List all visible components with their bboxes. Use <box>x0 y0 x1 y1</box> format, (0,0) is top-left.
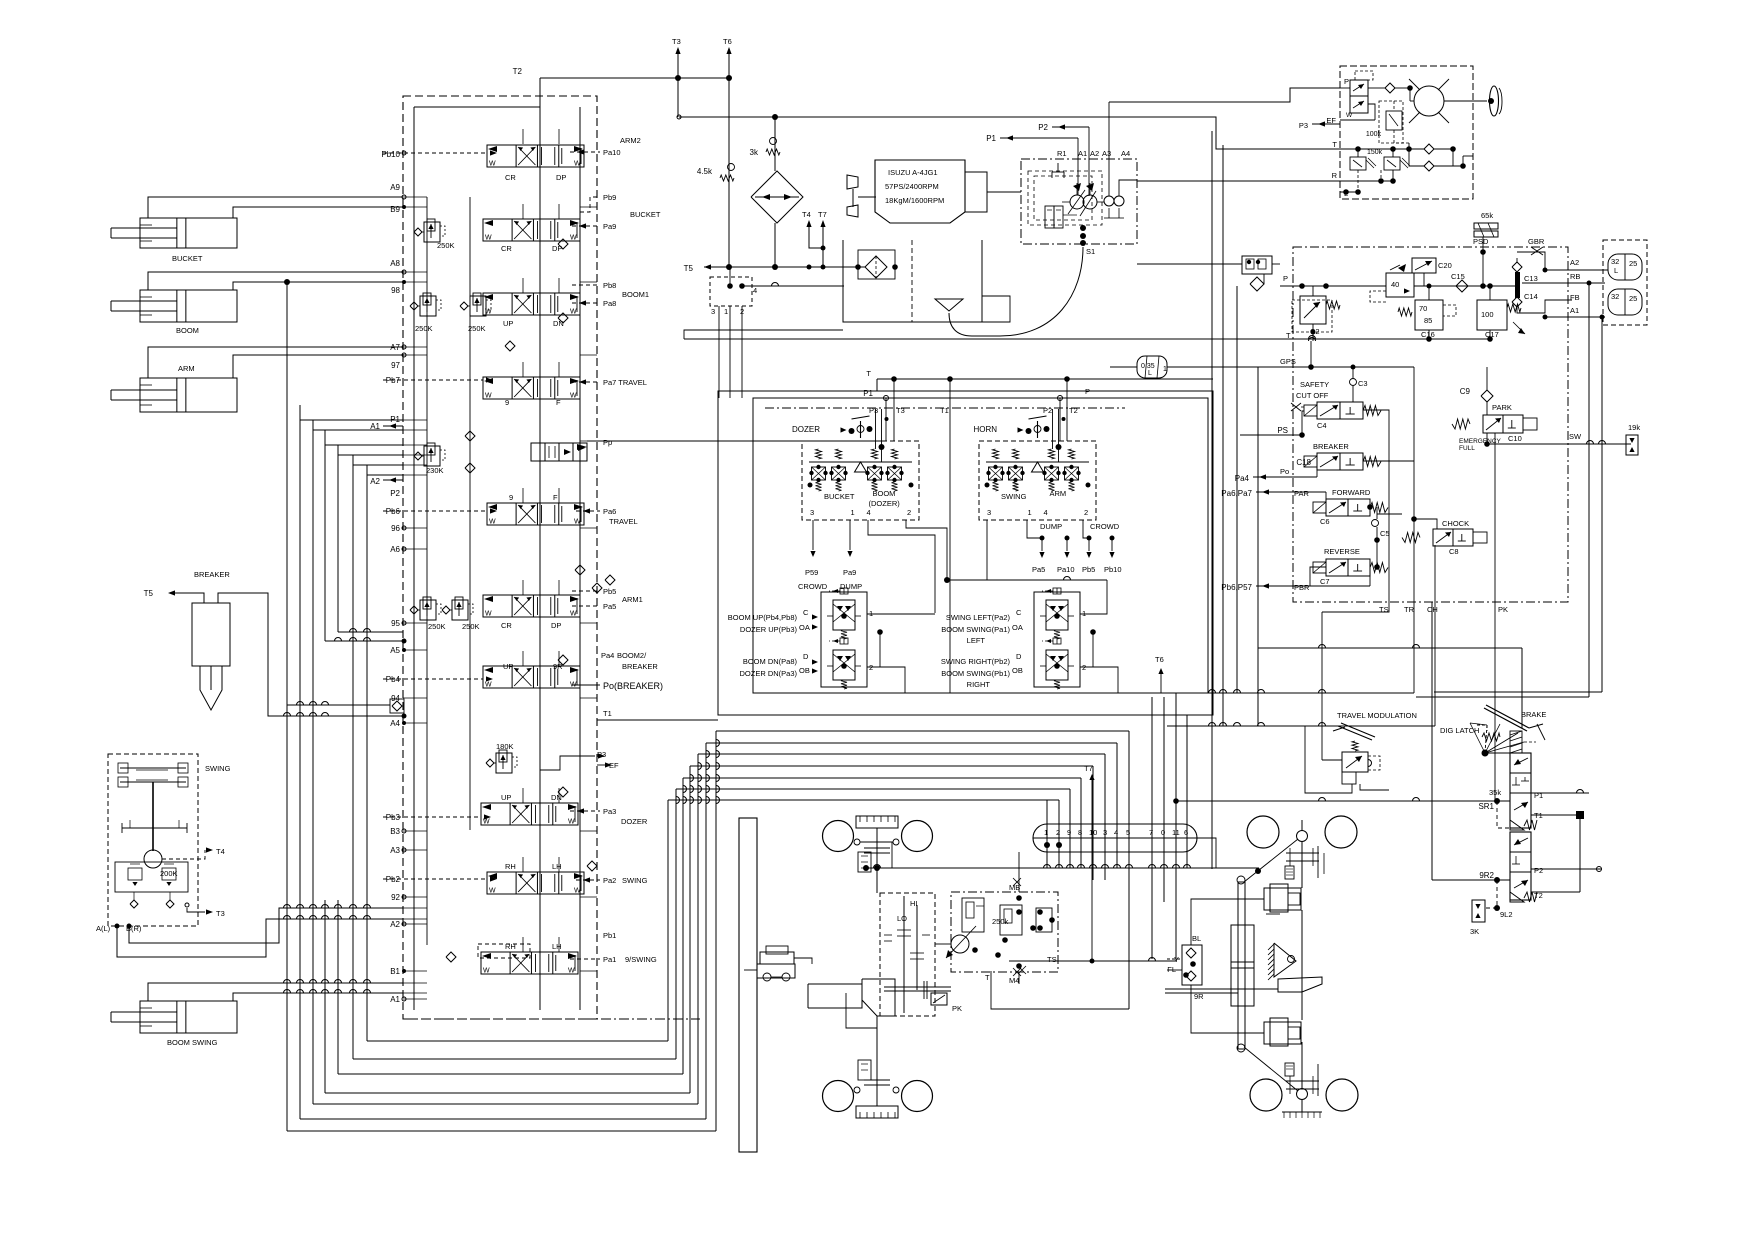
svg-text:25: 25 <box>1629 294 1637 303</box>
valve C17 100 <box>1477 300 1507 330</box>
svg-text:1: 1 <box>1163 366 1167 373</box>
svg-text:Pb4: Pb4 <box>386 675 401 684</box>
valve block internal rail right <box>579 107 581 1010</box>
wire arm A7 <box>148 347 403 378</box>
svg-text:DP: DP <box>556 173 566 182</box>
svg-text:OA: OA <box>1012 623 1023 632</box>
pump inner dashed boxes <box>1028 171 1102 225</box>
transfer pump circle <box>951 935 969 953</box>
svg-text:T: T <box>1332 140 1337 149</box>
svg-text:200K: 200K <box>160 869 178 878</box>
svg-text:65k: 65k <box>1481 211 1493 220</box>
svg-text:P3: P3 <box>1299 121 1308 130</box>
svg-text:0.35: 0.35 <box>1141 363 1155 370</box>
steering port P wire <box>1340 87 1350 89</box>
svg-text:96: 96 <box>391 524 400 533</box>
svg-text:85: 85 <box>1424 316 1432 325</box>
front steering fork <box>760 952 794 964</box>
svg-text:PK: PK <box>952 1004 962 1013</box>
node T6 junction <box>726 75 732 81</box>
valve section SWING (Pa2/Pb2) <box>487 872 584 894</box>
rear axle top wheels <box>1247 816 1279 848</box>
svg-text:250K: 250K <box>428 622 446 631</box>
svg-text:C7: C7 <box>1320 577 1330 586</box>
svg-text:Pa5: Pa5 <box>1032 565 1045 574</box>
svg-text:LO: LO <box>897 914 907 923</box>
svg-text:150k: 150k <box>1367 149 1383 156</box>
rear axle bottom gears <box>1286 1080 1319 1082</box>
svg-text:P3: P3 <box>869 406 878 415</box>
wire top return line <box>679 117 1340 149</box>
svg-text:Pb3: Pb3 <box>386 813 401 822</box>
rear steering cylinder <box>1238 882 1245 1049</box>
svg-text:9L2: 9L2 <box>1500 910 1513 919</box>
svg-text:95: 95 <box>391 619 400 628</box>
pilot manifold inner box <box>753 398 1208 693</box>
svg-text:BOOM1: BOOM1 <box>622 290 649 299</box>
svg-text:A2: A2 <box>390 920 400 929</box>
rear caliper upper <box>1264 888 1301 910</box>
svg-text:BUCKET: BUCKET <box>630 210 661 219</box>
svg-text:C: C <box>1016 608 1022 617</box>
wire boom A8 <box>148 272 403 290</box>
svg-text:18KgM/1600RPM: 18KgM/1600RPM <box>885 196 944 205</box>
rear axle top kingpin <box>1297 831 1308 842</box>
wire long return y337 <box>684 338 1490 340</box>
svg-text:SWING: SWING <box>1001 492 1027 501</box>
tank strainer <box>935 299 963 311</box>
svg-text:BOOM SWING(Pb1): BOOM SWING(Pb1) <box>941 669 1010 678</box>
svg-text:SR1: SR1 <box>1478 802 1494 811</box>
svg-text:C: C <box>803 608 809 617</box>
svg-text:DP: DP <box>552 244 562 253</box>
svg-text:9R: 9R <box>1194 992 1204 1001</box>
pump small drains <box>1108 208 1110 218</box>
bundle verticals ending at arm1 <box>324 430 326 641</box>
svg-text:BOOM: BOOM <box>176 326 199 335</box>
svg-text:B3: B3 <box>390 827 400 836</box>
svg-text:RH: RH <box>505 862 516 871</box>
svg-text:A1: A1 <box>1570 306 1579 315</box>
wire pump to steering P <box>1109 88 1340 102</box>
relief valve 250K boom a <box>420 296 436 316</box>
svg-text:W: W <box>485 682 492 689</box>
wire 35k SR1 <box>1176 800 1510 802</box>
svg-text:W: W <box>574 519 581 526</box>
svg-text:DUMP: DUMP <box>840 582 862 591</box>
brake linkage triangle <box>1482 750 1489 757</box>
steering port R wire <box>1340 180 1393 182</box>
svg-text:W: W <box>570 393 577 400</box>
wire bucket A9 <box>148 197 403 218</box>
svg-text:A4: A4 <box>390 719 400 728</box>
svg-text:P59: P59 <box>805 568 818 577</box>
pilot filter block <box>1242 256 1272 274</box>
svg-text:UP: UP <box>501 793 511 802</box>
svg-text:A3: A3 <box>1102 149 1111 158</box>
svg-text:97: 97 <box>391 361 400 370</box>
svg-text:C14: C14 <box>1524 292 1538 301</box>
svg-text:OB: OB <box>799 666 810 675</box>
svg-text:3: 3 <box>810 508 814 517</box>
svg-text:T4: T4 <box>802 210 811 219</box>
pump assembly box <box>1021 159 1137 244</box>
svg-text:P2: P2 <box>1043 406 1052 415</box>
svg-text:1: 1 <box>724 307 728 316</box>
brake valve 1 <box>1510 753 1531 828</box>
cylinder BOOM SWING <box>140 1001 237 1033</box>
check C13 C14 <box>1515 272 1520 298</box>
svg-text:PAR: PAR <box>1294 489 1309 498</box>
node T3 junction <box>675 75 681 81</box>
svg-text:T: T <box>985 973 990 982</box>
rear port block BL Y FL <box>1182 945 1202 985</box>
svg-text:C8: C8 <box>1449 547 1459 556</box>
valve block internal rail left <box>413 107 415 1010</box>
transfer control block 250k <box>951 892 1058 972</box>
svg-text:1: 1 <box>1082 609 1086 618</box>
gearbox output cone <box>862 979 895 1016</box>
wire pump A4 right <box>1119 180 1137 196</box>
svg-text:W: W <box>485 393 492 400</box>
filter diamond <box>751 171 803 223</box>
rear axle bottom wheels <box>1250 1079 1282 1111</box>
svg-text:Pb5: Pb5 <box>603 587 616 596</box>
valve section BOOM2/BREAKER (Pa4/Pb4) <box>483 666 580 688</box>
svg-text:B1: B1 <box>390 967 400 976</box>
pump drain R1 <box>1057 163 1059 172</box>
rear caliper lower <box>1264 1022 1301 1044</box>
wire boomswing A1 <box>148 983 403 1001</box>
pump main gear pumps <box>1070 195 1084 209</box>
svg-text:3: 3 <box>987 508 991 517</box>
valve C2 relief <box>1300 296 1326 324</box>
tank filter <box>858 250 895 279</box>
harness verticals right <box>1211 131 1213 869</box>
svg-text:1: 1 <box>869 609 873 618</box>
svg-text:3: 3 <box>711 307 715 316</box>
pump regulator <box>1045 206 1054 228</box>
svg-text:W: W <box>574 888 581 895</box>
wire gearbox loop <box>846 993 877 1028</box>
svg-text:A1: A1 <box>390 995 400 1004</box>
svg-text:OA: OA <box>799 623 810 632</box>
svg-text:TRAVEL MODULATION: TRAVEL MODULATION <box>1337 711 1417 720</box>
wire bundle to 94 box <box>287 704 390 706</box>
wire C6 to chock <box>1377 513 1402 515</box>
harness rows and verticals <box>716 730 1129 732</box>
svg-text:C18: C18 <box>1296 458 1311 467</box>
svg-text:BOOM: BOOM <box>873 489 896 498</box>
engine ISUZU block <box>875 160 965 223</box>
pilot group left port wires <box>812 520 814 550</box>
svg-text:CROWD: CROWD <box>798 582 828 591</box>
svg-text:A2: A2 <box>1570 258 1579 267</box>
pilot 4-port block <box>710 277 752 306</box>
wire Pp to pilot <box>597 440 886 442</box>
svg-text:Pa5: Pa5 <box>603 602 616 611</box>
svg-text:T: T <box>1286 331 1291 340</box>
svg-text:BOOM UP(Pb4,Pb8): BOOM UP(Pb4,Pb8) <box>728 613 798 622</box>
svg-text:2: 2 <box>1082 663 1086 672</box>
svg-text:Pb6: Pb6 <box>386 507 401 516</box>
svg-text:1: 1 <box>1044 828 1048 837</box>
node boom B8 junction <box>284 279 290 285</box>
wire right harness h1 <box>1167 692 1414 694</box>
svg-text:W: W <box>570 309 577 316</box>
svg-text:PK: PK <box>1498 605 1508 614</box>
svg-text:A3: A3 <box>390 846 400 855</box>
svg-text:W: W <box>570 611 577 618</box>
svg-text:T3: T3 <box>672 37 681 46</box>
svg-text:A2: A2 <box>1090 149 1099 158</box>
valve section DOZER (Pa3/Pb3) <box>481 803 578 825</box>
relief valve 250K arm b <box>452 600 468 620</box>
svg-text:RIGHT: RIGHT <box>967 680 991 689</box>
svg-text:UP: UP <box>503 319 513 328</box>
svg-text:SWING RIGHT(Pb2): SWING RIGHT(Pb2) <box>941 657 1011 666</box>
svg-text:R1: R1 <box>1057 149 1067 158</box>
rear axle top gears <box>1286 852 1319 854</box>
wire bump line y868 <box>866 867 1259 869</box>
steering unit box <box>1340 66 1473 199</box>
svg-text:9: 9 <box>509 493 513 502</box>
rear brake pack bottom <box>1285 1063 1294 1076</box>
travel modulation valve <box>1342 752 1368 772</box>
svg-text:A2: A2 <box>370 477 380 486</box>
svg-text:P2: P2 <box>1038 123 1048 132</box>
svg-text:BREAKER: BREAKER <box>194 570 230 579</box>
svg-text:LH: LH <box>552 942 562 951</box>
front axle shaft <box>876 828 878 893</box>
svg-text:S1: S1 <box>1086 247 1095 256</box>
svg-text:C3: C3 <box>1358 379 1368 388</box>
svg-text:100: 100 <box>1481 310 1494 319</box>
svg-text:W: W <box>483 968 490 975</box>
svg-text:W: W <box>489 519 496 526</box>
front axle bottom wheels <box>823 1081 854 1112</box>
svg-text:Pa7 TRAVEL: Pa7 TRAVEL <box>603 378 647 387</box>
svg-text:2: 2 <box>1056 828 1060 837</box>
wire pilot line y648 <box>1258 647 1522 649</box>
svg-text:250K: 250K <box>468 324 486 333</box>
svg-text:PS: PS <box>1277 426 1288 435</box>
svg-text:Pp: Pp <box>603 438 612 447</box>
svg-text:FULL: FULL <box>1459 445 1475 452</box>
svg-text:CUT OFF: CUT OFF <box>1296 391 1329 400</box>
svg-text:Pa4: Pa4 <box>601 651 614 660</box>
svg-text:A4: A4 <box>1121 149 1130 158</box>
valve block right stubs <box>580 206 597 208</box>
svg-text:Pa10: Pa10 <box>603 148 621 157</box>
svg-text:DOZER UP(Pb3): DOZER UP(Pb3) <box>740 625 798 634</box>
wire tank drain <box>684 330 843 339</box>
valve section ARM1 (Pa5/Pb5) <box>483 595 580 617</box>
drive brake valve PK <box>931 993 947 1005</box>
svg-text:Pb5: Pb5 <box>1082 565 1095 574</box>
steering orbitrol <box>1414 86 1444 116</box>
svg-text:P1: P1 <box>863 389 873 398</box>
svg-text:SWING: SWING <box>205 764 231 773</box>
tall rectangle conduit <box>739 818 757 1152</box>
svg-text:W: W <box>489 161 496 168</box>
svg-text:DOZER DN(Pa3): DOZER DN(Pa3) <box>739 669 797 678</box>
right control block box <box>1293 247 1568 602</box>
valve section BOOM1 (Pa8/Pb8) <box>483 293 580 315</box>
svg-text:FORWARD: FORWARD <box>1332 488 1371 497</box>
svg-text:Pa1: Pa1 <box>603 955 616 964</box>
svg-text:5: 5 <box>1126 828 1130 837</box>
svg-text:C15: C15 <box>1451 272 1465 281</box>
svg-text:Po: Po <box>1280 467 1289 476</box>
svg-text:2: 2 <box>907 508 911 517</box>
svg-text:T3: T3 <box>896 406 905 415</box>
steering port EF wire <box>1340 119 1375 121</box>
svg-text:C6: C6 <box>1320 517 1330 526</box>
svg-text:92: 92 <box>391 893 400 902</box>
svg-text:FL: FL <box>1167 965 1176 974</box>
svg-text:SWING: SWING <box>622 876 648 885</box>
svg-text:T7: T7 <box>1084 764 1093 773</box>
svg-text:W: W <box>568 968 575 975</box>
rear brake pack top <box>1285 866 1294 879</box>
svg-text:REVERSE: REVERSE <box>1324 547 1360 556</box>
svg-text:ARM: ARM <box>178 364 195 373</box>
wire PK vertical <box>1494 433 1496 801</box>
svg-text:ARM: ARM <box>1050 489 1067 498</box>
svg-text:PARK: PARK <box>1492 403 1512 412</box>
main control valve enclosure <box>403 96 597 1019</box>
check C5 <box>1372 520 1379 527</box>
steering port T wire <box>1340 148 1424 150</box>
wire PAR <box>1256 491 1326 493</box>
svg-text:40: 40 <box>1391 280 1399 289</box>
svg-text:BRAKE: BRAKE <box>1521 710 1546 719</box>
svg-text:W: W <box>485 611 492 618</box>
pump swash lines <box>1068 190 1085 214</box>
svg-text:32: 32 <box>1611 257 1619 266</box>
svg-text:6: 6 <box>1184 828 1188 837</box>
svg-text:DN: DN <box>553 319 564 328</box>
svg-text:A5: A5 <box>390 646 400 655</box>
brake valve right wires <box>1531 792 1589 794</box>
svg-text:T5: T5 <box>144 589 154 598</box>
svg-text:T1: T1 <box>603 709 612 718</box>
svg-text:GBR: GBR <box>1528 237 1545 246</box>
wire swing A to valve A2 <box>117 919 403 957</box>
svg-text:W: W <box>570 235 577 242</box>
rear axle shaft <box>1301 841 1303 888</box>
svg-text:BOOM2/: BOOM2/ <box>617 651 647 660</box>
svg-text:HI: HI <box>910 899 918 908</box>
svg-text:DOZER: DOZER <box>621 817 648 826</box>
pilot manifold outer box <box>718 391 1213 715</box>
wire junction to right shuttle <box>947 579 1107 581</box>
valve block internal port stubs <box>403 196 427 198</box>
valve section TRAVEL (Pa7) <box>483 377 580 399</box>
svg-text:C13: C13 <box>1524 274 1538 283</box>
front bottom brake <box>858 1060 871 1080</box>
svg-text:LH: LH <box>552 862 562 871</box>
svg-text:3: 3 <box>1103 828 1107 837</box>
pilot valve group SWING/ARM <box>979 441 1096 520</box>
svg-text:35k: 35k <box>1489 788 1501 797</box>
svg-text:C20: C20 <box>1438 261 1452 270</box>
front axle diff <box>856 816 898 828</box>
svg-text:1: 1 <box>851 508 855 517</box>
pilot valve group BUCKET/BOOM-DOZER <box>802 441 919 520</box>
svg-text:Pa2: Pa2 <box>603 876 616 885</box>
svg-text:180K: 180K <box>496 742 514 751</box>
connector oval <box>1033 824 1197 852</box>
svg-text:PBR: PBR <box>1294 583 1310 592</box>
svg-text:11: 11 <box>1172 828 1180 837</box>
valve section BOOM SWING (Pa1/Pb1) <box>481 952 578 974</box>
svg-text:1: 1 <box>1028 508 1032 517</box>
svg-text:4: 4 <box>1114 828 1118 837</box>
svg-text:CR: CR <box>501 244 512 253</box>
svg-text:W: W <box>574 161 581 168</box>
dig latch spring <box>1482 733 1500 741</box>
svg-text:Pb10: Pb10 <box>381 150 400 159</box>
svg-text:Pb2: Pb2 <box>386 875 401 884</box>
svg-text:T3: T3 <box>216 909 225 918</box>
wire bucket B9 <box>233 207 403 218</box>
svg-text:B9: B9 <box>390 205 400 214</box>
rear caliper wires <box>1191 899 1264 945</box>
staircase left verticals <box>286 282 288 1131</box>
restrictor 3k <box>770 138 777 145</box>
svg-text:4: 4 <box>753 286 757 295</box>
staircase bottom lines <box>367 1040 668 1042</box>
steering port P3 arrow <box>1312 123 1340 125</box>
wire T2 top <box>540 77 729 79</box>
svg-text:TRAVEL: TRAVEL <box>609 517 638 526</box>
svg-text:BOOM DN(Pa8): BOOM DN(Pa8) <box>743 657 798 666</box>
svg-text:CR: CR <box>505 173 516 182</box>
brake spring column <box>1510 731 1522 753</box>
shuttle right out wires <box>1080 580 1107 614</box>
svg-text:UP: UP <box>503 662 513 671</box>
node filter junction <box>772 114 778 120</box>
brake valve 1 spring <box>1510 820 1524 830</box>
shuttle block left (boom/dozer) <box>821 592 867 687</box>
wire swing B to valve B2 <box>129 908 403 943</box>
svg-text:F: F <box>553 493 558 502</box>
svg-text:A8: A8 <box>390 259 400 268</box>
hydraulic tank <box>843 240 982 322</box>
steering priority valve <box>1350 80 1368 113</box>
driveshaft <box>884 986 951 988</box>
svg-text:3K: 3K <box>1470 927 1479 936</box>
svg-text:FB: FB <box>1570 293 1580 302</box>
svg-text:9/SWING: 9/SWING <box>625 955 657 964</box>
engine coupling <box>965 172 987 212</box>
svg-text:P1: P1 <box>1534 791 1543 800</box>
swing motor assembly <box>108 754 198 926</box>
svg-text:BOOM SWING: BOOM SWING <box>167 1038 218 1047</box>
svg-text:57PS/2400RPM: 57PS/2400RPM <box>885 182 939 191</box>
cylinder BUCKET <box>140 218 237 248</box>
svg-text:Pb7: Pb7 <box>386 376 401 385</box>
svg-text:ISUZU A-4JG1: ISUZU A-4JG1 <box>888 168 938 177</box>
svg-text:P: P <box>1085 387 1090 396</box>
front brake <box>858 852 871 872</box>
steering relief 100k <box>1386 111 1402 130</box>
svg-text:19k: 19k <box>1628 423 1640 432</box>
svg-text:(DOZER): (DOZER) <box>869 499 901 508</box>
svg-text:Pb10: Pb10 <box>1104 565 1122 574</box>
